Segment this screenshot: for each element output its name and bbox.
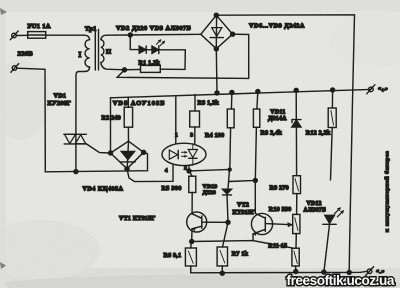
optocoupler VD5 [162,143,206,165]
LED VD3 [152,40,165,54]
triac VD1 KU208G [64,134,87,144]
wire VD10 tap to R8 column (horiz2) [229,180,255,181]
resistor R1 [125,65,186,72]
node VD4 left [109,151,113,155]
pin 1 wire [175,97,177,144]
node rail R12 [331,88,335,92]
resistor R4 column [227,92,234,169]
node bridge top [214,13,218,17]
core lines [94,30,96,71]
terminal X1 (220V input, upper) [10,31,18,40]
transistor VT1 [187,212,228,242]
diode VD2 [139,46,146,53]
bottom minus rail [191,271,368,273]
wire VD2 to VD3 [146,49,152,51]
transistor VT2 [251,213,292,240]
zener VD11 [292,90,301,175]
wire bridge bottom corner down to plus rail [215,49,218,93]
wire triac gate to VD4 left corner [86,144,110,153]
node VT1 emitter [190,240,194,244]
terminal minus output [366,267,374,276]
wire VD4 bottom to opto pin4 [127,165,173,181]
node R8 column [253,178,257,182]
wire fuse to transformer primary [46,35,90,40]
node rail-bridge column [215,91,219,95]
wire primary bottom to triac [76,67,90,134]
resistor R8 column [253,92,259,214]
bridge rectifier VD6...VD9 [201,15,233,49]
resistor R2 [124,97,132,141]
secondary winding II [101,40,104,63]
wire bridge top corner to right rail [216,15,354,273]
node VD4 bottom [125,167,129,171]
wire pin2 to node [188,165,190,171]
wire terminal2 down left rail to VD4 right corner [17,68,148,172]
node VD12 bottom [322,270,326,274]
resistor R12 [328,90,336,180]
node rail VD11 [294,88,298,92]
node bridge bottom [214,47,218,51]
resistor R11 [292,248,299,271]
node right rail bottom [347,270,351,274]
node pin2 [187,169,191,173]
node: triac MT2 junction on left rail [74,170,78,174]
wire secondary bottom to node [101,63,125,70]
node R7 bottom [220,271,224,275]
node bridge right [231,32,235,36]
wire secondary top to bridge left corner [101,34,201,39]
node R4-VD10 corner [228,168,231,171]
fuse FU1 [28,32,46,39]
LED VD12 [323,208,344,272]
wire triac bottom to left rail [75,144,77,172]
resistor R6 [185,242,196,273]
primary winding I [85,40,90,67]
wire node to R4 column (horiz1) [189,169,230,171]
wire bridge right corner down to AC2 horizontal [233,34,249,78]
wire terminal1 to fuse [16,34,27,36]
node secondary top [128,33,132,37]
pin 3 wire + resistor R3 [190,94,200,143]
wire VD3 to right vertical of indicator loop [159,50,186,70]
emitter rail to R11 [192,241,294,249]
node rail R4 [230,90,234,94]
resistor R7 [217,222,228,273]
terminal plus output [367,85,375,94]
node VT1 base [226,220,230,224]
node rail R8 [256,90,260,94]
bridge VD4 KC405A [111,141,144,169]
potentiometer R10 [293,214,300,248]
diode VD10 [223,169,232,222]
node VD4 right [142,150,146,154]
transformer T1 [85,30,104,71]
resistor R5 [189,171,196,214]
node secondary bottom [123,68,127,72]
wire rail left end down to VD4 left corner [110,98,112,153]
wire node stub to AC2 long horizontal [117,70,249,79]
terminal X2 (220V input, lower) [11,64,19,73]
plus rail [111,89,371,97]
resistor R9 [293,176,301,215]
wire node down to diode row [130,35,139,50]
node R11 bottom [294,270,298,274]
